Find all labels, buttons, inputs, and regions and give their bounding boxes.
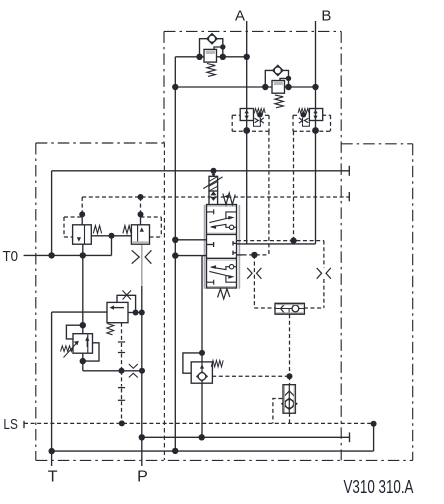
- svg-text:V310 310.A: V310 310.A: [344, 476, 414, 497]
- svg-text:T: T: [48, 468, 58, 485]
- svg-text:LS: LS: [3, 416, 18, 433]
- svg-text:A: A: [235, 8, 245, 25]
- svg-text:T0: T0: [3, 248, 19, 265]
- svg-text:P: P: [137, 469, 148, 486]
- svg-text:B: B: [321, 8, 331, 25]
